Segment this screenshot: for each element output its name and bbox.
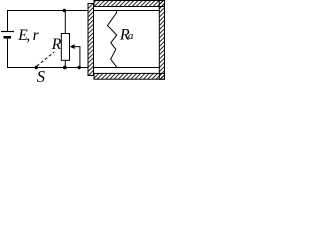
wire: rheostat wiper lead down to bottom wire bbox=[74, 47, 80, 68]
svg-text:r: r bbox=[33, 27, 40, 44]
wire: rheostat R bottom to bottom wire bbox=[64, 60, 66, 67]
node: junction dot on top wire at rheostat branch bbox=[63, 9, 66, 12]
wire: top wire down to rheostat R bbox=[64, 11, 66, 34]
wire: interior bottom wire from wall to right wall bbox=[94, 67, 160, 69]
node: junction dot on bottom wire below rheostat bbox=[63, 66, 67, 70]
enclosure wall top (hatched) bbox=[94, 1, 165, 7]
enclosure wall left (hatched) bbox=[88, 4, 94, 76]
rheostat wiper arrowhead bbox=[70, 44, 75, 49]
battery E,r long plate bbox=[1, 31, 14, 33]
svg-text:S: S bbox=[37, 67, 45, 83]
svg-text:,: , bbox=[26, 27, 30, 44]
svg-text:a: a bbox=[128, 30, 134, 42]
svg-text:R: R bbox=[51, 36, 62, 53]
enclosure wall right (hatched) bbox=[159, 1, 164, 80]
enclosure wall bottom (hatched) bbox=[94, 73, 165, 79]
wire: interior top wire from wall to right wall bbox=[94, 10, 160, 12]
resistor R (rheostat body) bbox=[61, 34, 69, 61]
switch S pivot dot bbox=[35, 66, 38, 69]
resistor Ra zigzag bbox=[108, 11, 118, 68]
switch S blade (open, dashed) bbox=[37, 52, 54, 66]
battery E,r short plate bbox=[4, 36, 12, 39]
wire left-bottom: from battery negative down and across bottom to enclosure wall bbox=[8, 39, 89, 68]
node: junction dot on bottom wire below wiper bbox=[78, 66, 81, 69]
wire top: from battery positive up and across to enclosure wall bbox=[8, 11, 89, 32]
